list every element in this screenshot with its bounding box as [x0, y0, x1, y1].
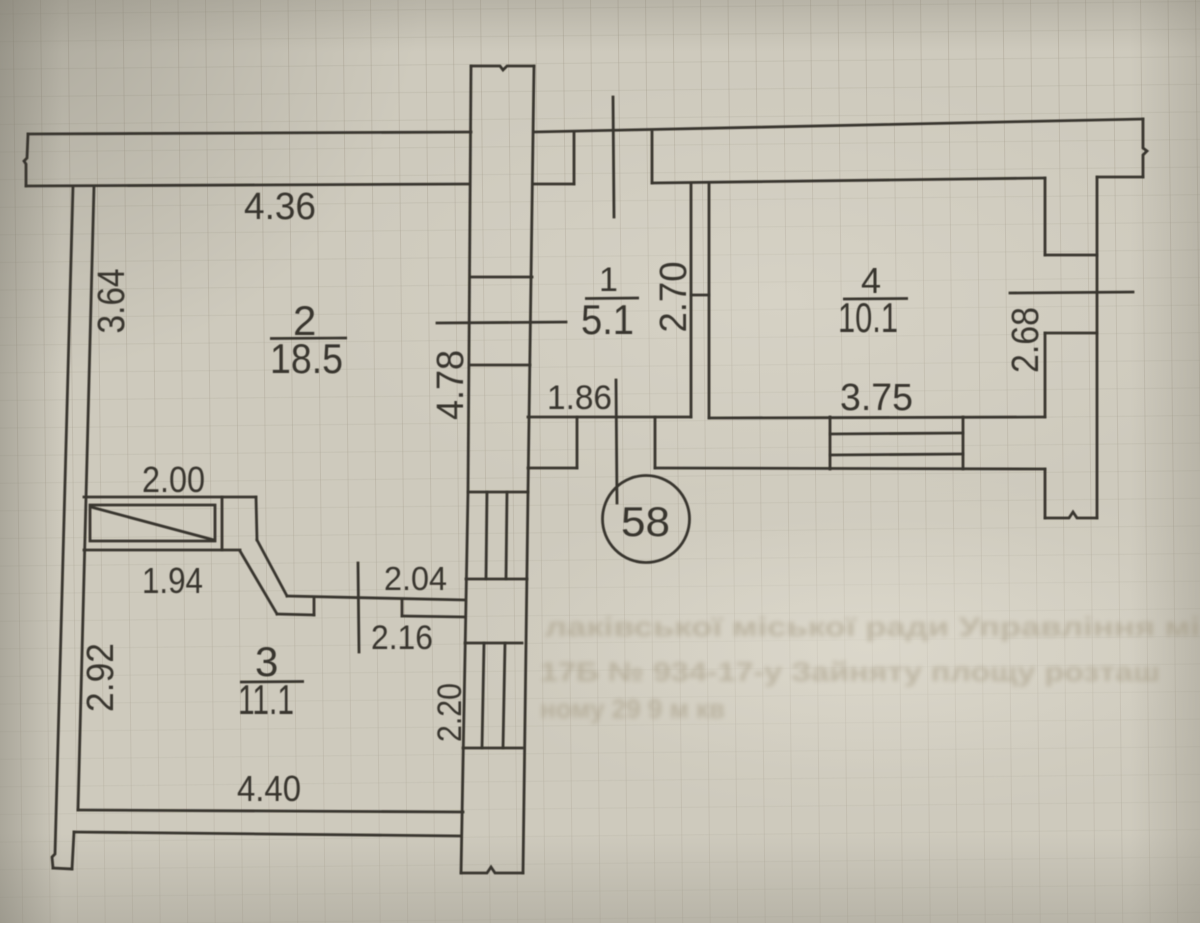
wall top outer left segment [28, 132, 471, 134]
jamb hall door right [654, 417, 657, 468]
svg-text:1: 1 [599, 261, 618, 299]
wall diagonal inner [240, 551, 277, 614]
vignette bottom edge [0, 833, 1200, 923]
wall corner vertical [256, 497, 257, 540]
svg-text:2.92: 2.92 [80, 643, 122, 712]
svg-text:58: 58 [621, 498, 670, 545]
dimension 2.68 (vertical) [1005, 307, 1047, 373]
tick top window [613, 97, 614, 217]
window lower cap bottom [463, 747, 522, 750]
vignette top-left corner [0, 0, 420, 380]
jamb room3 door left [313, 598, 316, 615]
wall hall-room3 right rail [523, 492, 528, 873]
svg-text:11.1: 11.1 [238, 676, 294, 723]
wall hall lower line [655, 468, 1045, 469]
wall stub cap [471, 66, 534, 70]
window room4 line2 [830, 454, 963, 455]
wall top inner line left [26, 184, 470, 186]
wall top-right corner drop [1143, 119, 1147, 177]
jamb room4 window left [829, 417, 832, 469]
bleed-through text from page behind [540, 612, 1200, 724]
vignette right edge [1130, 0, 1200, 923]
svg-text:3.64: 3.64 [91, 269, 133, 334]
tick hall door [616, 380, 617, 503]
svg-text:4.78: 4.78 [430, 350, 472, 420]
svg-text:5.1: 5.1 [581, 296, 634, 343]
svg-text:2.00: 2.00 [142, 459, 205, 500]
wall stub/room divider left rail [468, 66, 471, 492]
window ladder cap top [468, 491, 528, 494]
svg-text:1.86: 1.86 [547, 379, 612, 417]
wall left outer [52, 186, 73, 868]
svg-text:2.04: 2.04 [384, 560, 447, 597]
vignette top edge [0, 0, 1200, 52]
tick right window upper [1045, 254, 1097, 257]
wall wardrobe bottom line [84, 549, 240, 552]
dimension 2.20 (vertical) [431, 683, 469, 742]
svg-text:2.20: 2.20 [431, 683, 469, 742]
window ladder cap bottom [466, 578, 527, 581]
wall bottom-left cap [53, 868, 72, 869]
svg-text:ному 29 9 м кв: ному 29 9 м кв [540, 694, 725, 724]
wall room3 top lower right [402, 616, 465, 617]
jamb hall door left [576, 417, 579, 468]
wall room3 floor outer [74, 832, 461, 836]
wall room1 bottom [528, 416, 691, 419]
wall top outer right segment [534, 119, 1143, 132]
jamb top opening right [651, 132, 654, 183]
wall right top step [1097, 176, 1143, 179]
wall room3 floor inner [78, 810, 463, 812]
wall left step [72, 832, 74, 869]
wall divider 1-4 left rail [690, 183, 693, 417]
room 2 fraction line [270, 337, 347, 340]
svg-text:3.75: 3.75 [840, 377, 913, 419]
room 4 fraction line [843, 297, 908, 300]
wall hall top line [528, 467, 577, 470]
wall room4 bottom [709, 417, 1045, 418]
wall top inner line right [652, 178, 1045, 183]
jamb room3 door right [401, 599, 404, 616]
wall right inner upper [1044, 178, 1047, 255]
tick right window long [1010, 292, 1133, 293]
tick divider 1-4 [691, 294, 709, 297]
window lower cap top [465, 642, 522, 645]
niche divider [221, 497, 224, 550]
light patch over rooms [320, 70, 1200, 530]
window lower inner 2 [503, 643, 505, 748]
wall divider 1-4 right rail [708, 183, 711, 418]
svg-text:17Б № 934-17-у Зайняту площу р: 17Б № 934-17-у Зайняту площу розташ [540, 657, 1160, 687]
svg-text:2.68: 2.68 [1005, 307, 1047, 373]
wall hall-room3 left rail [461, 492, 468, 873]
svg-text:1.94: 1.94 [142, 560, 203, 601]
tick wall 2-1 upper [470, 276, 532, 279]
room 1 fraction line [585, 297, 639, 300]
wall room3 top upper line [287, 596, 465, 600]
wall stub/room divider right rail [528, 66, 534, 492]
wall top inner line middle [533, 183, 574, 186]
tick wall 2-1 long [437, 322, 566, 323]
window ladder inner 2 [506, 492, 507, 579]
svg-text:2.70: 2.70 [653, 262, 695, 333]
svg-text:4.40: 4.40 [237, 768, 301, 809]
light patch over bleed text zone [460, 470, 1200, 820]
tick right window lower [1045, 332, 1097, 335]
window room4 line1 [830, 433, 963, 434]
svg-text:18.5: 18.5 [270, 335, 343, 382]
jamb room4 window right [962, 417, 965, 469]
vignette left edge [0, 0, 62, 923]
window lower inner 1 [482, 643, 484, 748]
dimension 2.70 (vertical) [653, 262, 695, 333]
wall wardrobe top line [84, 496, 256, 499]
wall top-left corner drop [24, 134, 28, 186]
tick wall 2-1 lower [469, 364, 530, 367]
wall diagonal outer [257, 540, 287, 596]
wardrobe diagonal [91, 507, 214, 540]
dimension 2.92 (vertical) [80, 643, 122, 712]
window ladder inner 1 [486, 492, 487, 579]
tick room3 door [358, 563, 359, 652]
svg-text:4.36: 4.36 [244, 186, 316, 228]
wall right inner lower [1044, 333, 1047, 417]
apartment number circle 58 [603, 476, 690, 563]
wardrobe box [90, 505, 215, 541]
wall room3 top lower left [277, 614, 314, 615]
wall right outer [1096, 177, 1099, 518]
wall right bottom cap [1045, 512, 1097, 518]
wall bottom stub cap [461, 867, 523, 873]
svg-text:лаківської міської ради Управл: лаківської міської ради Управління мі [545, 612, 1200, 642]
dimension 3.64 (vertical) [91, 269, 133, 334]
room 3 fraction line [240, 680, 304, 683]
jamb top opening left [573, 132, 576, 184]
svg-text:10.1: 10.1 [838, 294, 898, 341]
wall right inner bottom piece [1044, 469, 1047, 518]
dimension 4.78 (vertical) [430, 350, 472, 420]
wall left inner [78, 186, 94, 810]
svg-text:2.16: 2.16 [371, 619, 433, 657]
